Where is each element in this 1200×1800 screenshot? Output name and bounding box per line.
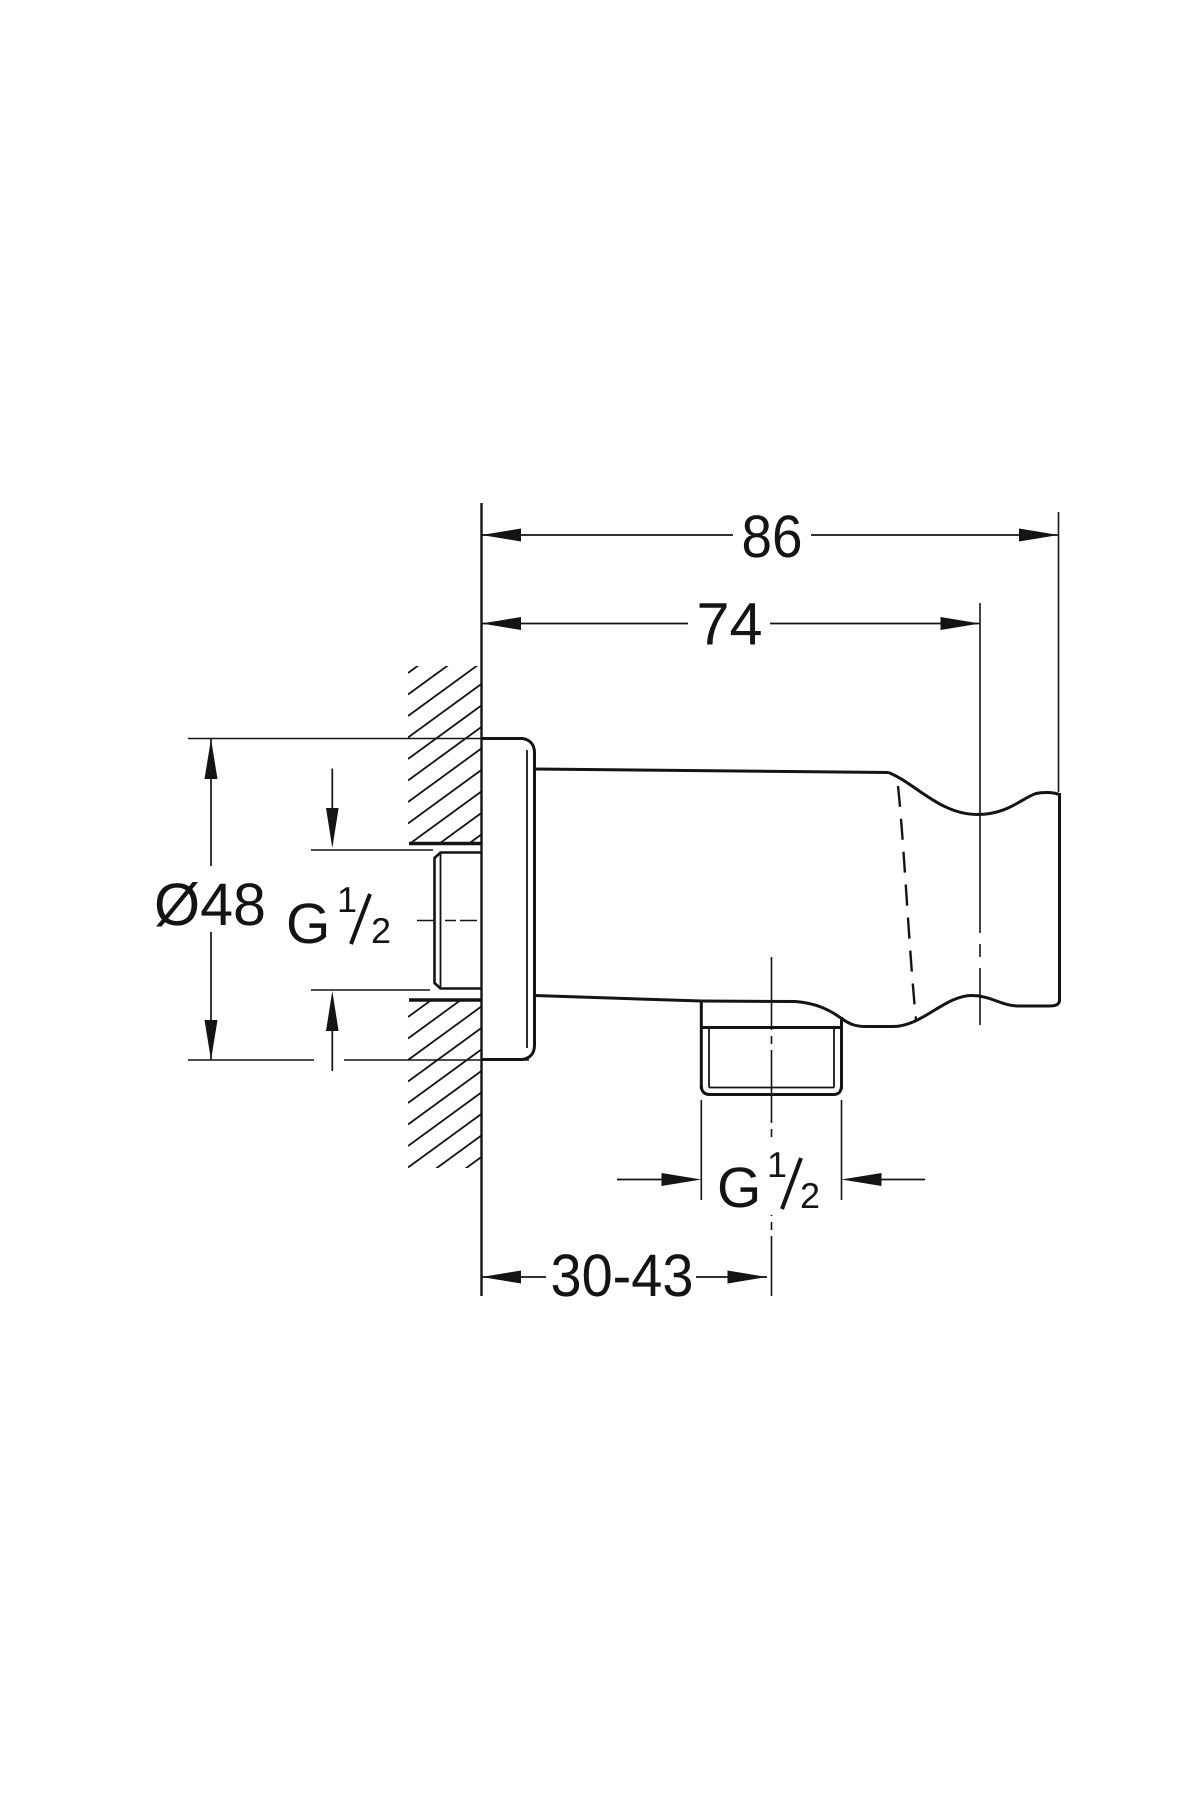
outlet thread inner bottom line	[709, 1087, 834, 1089]
svg-text:1: 1	[767, 1144, 787, 1185]
dimension 86 right extension line	[1058, 512, 1060, 792]
wall face line	[480, 503, 482, 1296]
inlet thread dim top extension line	[311, 849, 433, 851]
white gap on 74 extension	[975, 933, 985, 944]
outlet G1/2 dim left extension line	[700, 1100, 702, 1200]
dimension 74 right arrow	[941, 617, 981, 630]
body bottom edge	[535, 996, 702, 1002]
svg-text:86: 86	[742, 503, 803, 570]
label G1/2 at outlet	[717, 1144, 820, 1220]
outlet G1/2 dim left arrow	[617, 1179, 665, 1181]
holder cup bottom profile	[701, 996, 1059, 1027]
svg-text:2: 2	[800, 1175, 820, 1216]
inlet thread dim up arrow	[331, 1028, 333, 1071]
outlet G1/2 dim right extension line	[841, 1100, 843, 1200]
wall hole top edge	[409, 842, 482, 845]
svg-text:30-43: 30-43	[551, 1242, 694, 1309]
svg-text:G: G	[717, 1156, 761, 1220]
text knockout boxes	[733, 506, 811, 564]
svg-text:1: 1	[337, 879, 357, 920]
dimension 74 left arrow	[482, 617, 522, 630]
outlet thread top line	[701, 1026, 841, 1029]
svg-text:Ø48: Ø48	[154, 871, 266, 938]
inlet thread relief line	[440, 854, 442, 988]
outlet nipple left edge	[700, 1001, 703, 1089]
svg-text:G: G	[286, 892, 330, 956]
dimension 74 line	[482, 623, 981, 625]
outlet nipple bottom face	[701, 1085, 841, 1095]
dimension 86 left arrow	[482, 529, 522, 542]
dimension D48 top arrow	[205, 739, 218, 779]
dimension D48 bottom arrow	[205, 1020, 218, 1060]
inlet thread G1/2 through wall	[435, 853, 482, 989]
axis centerline at inlet	[417, 920, 482, 922]
inlet thread dim down arrow	[331, 769, 333, 813]
dimension D48 top extension line	[188, 738, 482, 740]
outlet G1/2 dim right arrow	[878, 1179, 925, 1181]
body top edge	[535, 769, 889, 773]
outlet thread relief left	[708, 1028, 710, 1088]
svg-text:74: 74	[697, 591, 763, 658]
wall hatching	[408, 619, 482, 1210]
hidden inner cup edge (dashed)	[898, 786, 916, 1020]
label G1/2 at inlet	[286, 879, 391, 956]
dimension 74 extension line	[979, 603, 981, 1025]
white gap on D48 extension	[314, 1051, 344, 1068]
holder cup top profile	[889, 773, 1059, 815]
escutcheon flange	[482, 739, 535, 1060]
flange face rim line	[526, 750, 528, 1048]
outlet nipple right edge	[840, 1017, 843, 1089]
holder cup right edge	[1058, 793, 1061, 1001]
dimension 30-43 left arrow	[482, 1271, 522, 1284]
inlet thread dim bottom extension line	[311, 989, 430, 991]
dimension 30-43 right arrow	[728, 1271, 768, 1284]
dimension 86 line	[482, 534, 1059, 536]
dimension 86 right arrow	[1019, 529, 1059, 542]
dimension D48 bottom extension line	[188, 1059, 529, 1061]
svg-text:2: 2	[371, 910, 391, 951]
dimension 30-43 line	[482, 1276, 768, 1278]
wall hole bottom edge	[409, 998, 482, 1001]
outlet thread relief right	[833, 1028, 835, 1088]
outlet centerline (dash-dot)	[771, 957, 773, 1296]
dimension D48 line	[210, 739, 212, 1060]
